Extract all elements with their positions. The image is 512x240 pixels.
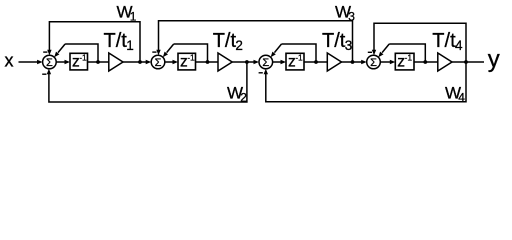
wire Z3 output to A3 input [304,61,327,63]
wire U3 to Z3 [273,61,281,63]
svg-text:3: 3 [348,9,355,23]
svg-text:4: 4 [455,38,463,53]
delay block Z3 (z^-1) [286,53,304,70]
svg-text:4: 4 [458,91,465,105]
wire U2 to Z2 [165,61,173,63]
wire feedback loop W1 (node N1 to U1 top) [49,22,140,62]
svg-text:2: 2 [240,91,247,105]
wire U1 to Z1 [56,61,65,63]
summing junction U3 [259,55,273,69]
wire local feedback loop F2 (Z2 output to U2) [174,44,208,62]
wire feedback loop W3 (node N3 to U2 top) [159,21,353,62]
svg-text:1: 1 [130,10,137,24]
delay block Z2 (z^-1) [178,53,196,70]
summing junction U2 [151,55,165,69]
wire Z4 output to A4 [414,61,438,63]
delay block Z1 (z^-1) [70,53,88,70]
delay block Z4 (z^-1) [395,53,414,70]
svg-text:T/t: T/t [322,30,346,52]
svg-text:T/t: T/t [432,30,456,52]
svg-text:T/t: T/t [104,30,128,52]
wire feedback loop (node N4 to U4 top) [374,23,466,62]
minus sign at U4 top input [368,52,372,53]
gain amplifier A2 [218,53,232,71]
svg-text:-1: -1 [79,53,87,63]
node N4 (output tap) [464,60,468,64]
node N1 (W1 tap) [138,60,142,64]
wire local feedback loop F1 (Z1 output to U1) [65,44,98,62]
svg-text:T/t: T/t [213,30,237,52]
gain amplifier A1 [109,53,123,71]
wire A1 output to U2 input [123,61,146,63]
svg-text:3: 3 [345,38,353,53]
summing junction U1 [43,55,57,69]
node after Z1 (local tap) [96,60,100,64]
wire Z2 output to A2 input [196,61,219,63]
node after Z3 (local tap) [314,60,318,64]
minus sign at U1 top input [43,51,47,52]
wire input x to U1 [19,61,38,63]
node after Z2 (local tap) [206,60,210,64]
node after Z4 (local tap) [423,60,427,64]
svg-text:1: 1 [126,38,134,53]
wire feedback loop W2 (node N2 to U1 bottom) [49,62,247,102]
wire feedback loop W4 (node N4 to U3 bottom) [266,62,466,102]
wire Z1 output to A1 input [88,61,109,63]
svg-text:-1: -1 [187,53,195,63]
svg-text:x: x [5,51,14,71]
svg-text:-1: -1 [405,53,413,63]
wire A3 output to U4 input [342,61,362,63]
svg-text:y: y [488,46,500,73]
wire local feedback loop F3 (Z3 output to U3) [282,44,317,62]
wire A2 output to U3 input [232,61,254,63]
svg-text:Σ: Σ [155,57,162,69]
gain amplifier A3 [327,53,341,71]
wire A4 output to y [452,61,484,63]
minus sign at U3 bottom input [259,72,263,73]
svg-text:Σ: Σ [370,57,377,69]
wire U4 to Z4 [380,61,390,63]
summing junction U4 [367,55,381,69]
node N2 (W2 tap) [245,60,249,64]
wire local feedback loop F4 (Z4 output to U4) [389,44,425,62]
node N3 (W3 tap) [351,60,355,64]
gain amplifier A4 [438,53,452,71]
svg-text:Σ: Σ [46,57,53,69]
minus sign at U2 top input [152,51,156,52]
svg-text:2: 2 [235,38,243,53]
minus sign at U1 bottom input [42,74,46,75]
svg-text:-1: -1 [295,53,303,63]
svg-text:Σ: Σ [262,57,269,69]
